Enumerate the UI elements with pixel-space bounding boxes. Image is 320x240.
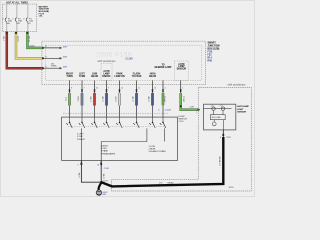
svg-text:8: 8 — [71, 88, 72, 90]
svg-text:57 BK: 57 BK — [79, 172, 81, 178]
label light switch — [179, 116, 188, 123]
label battery junction box — [39, 5, 50, 17]
svg-text:LIGHT: LIGHT — [237, 109, 244, 111]
switch contact blades — [66, 122, 165, 128]
svg-text:10: 10 — [154, 88, 156, 90]
svg-text:3 WH: 3 WH — [78, 96, 80, 101]
wire yellow from fuse F2 — [16, 32, 43, 59]
svg-text:BK/RD: BK/RD — [168, 182, 175, 184]
svg-text:BOX (SJB): BOX (SJB) — [208, 49, 220, 51]
node splice sensor wire — [180, 105, 182, 107]
svg-text:4WT: 4WT — [63, 46, 68, 48]
svg-text:11: 11 — [138, 88, 140, 90]
sensor internal bus — [204, 108, 232, 110]
svg-text:5: 5 — [78, 165, 79, 167]
svg-text:2 RD: 2 RD — [4, 36, 6, 41]
svg-text:with autolamps: with autolamps — [228, 82, 247, 86]
svg-text:1: 1 — [182, 88, 183, 90]
svg-text:196 LG: 196 LG — [184, 95, 186, 102]
wire ground mid — [100, 160, 102, 182]
svg-text:13 YE: 13 YE — [18, 35, 20, 41]
label autolamp light sensor — [237, 105, 249, 113]
wire park lamp (grey) — [119, 80, 121, 117]
svg-text:DEMAND LAMP: DEMAND LAMP — [155, 66, 172, 69]
node yellow pin — [42, 57, 44, 59]
switch position text A — [77, 134, 86, 141]
wire low beam (red) — [94, 80, 96, 117]
svg-text:SENSOR: SENSOR — [237, 112, 246, 114]
svg-text:C1089: C1089 — [125, 57, 133, 60]
svg-text:SUN LOAD: SUN LOAD — [212, 116, 222, 119]
svg-text:3 FLASH TO PASS: 3 FLASH TO PASS — [149, 150, 167, 153]
svg-text:15 GN: 15 GN — [29, 36, 31, 43]
internal wire to bottom pins — [81, 128, 164, 160]
svg-text:R14: R14 — [208, 57, 213, 60]
node yellow pin tick — [15, 32, 17, 34]
svg-text:57 BK: 57 BK — [104, 173, 106, 179]
wire high beam (navy) — [152, 80, 154, 117]
svg-text:14C: 14C — [27, 23, 31, 25]
svg-text:BEAM: BEAM — [149, 75, 156, 78]
light switch box — [62, 117, 178, 160]
fuse F3 wire — [27, 4, 29, 32]
svg-text:10 DB: 10 DB — [149, 96, 151, 102]
svg-text:15: 15 — [97, 165, 99, 167]
autolamp light sensor box — [204, 104, 236, 130]
pin numbers SJB bottom — [71, 88, 183, 90]
switch bottom pin 15 + C248 — [100, 160, 102, 166]
svg-text:14: 14 — [121, 88, 123, 90]
wire ground left — [81, 160, 101, 182]
pin label RIGHT TURN — [66, 63, 187, 78]
wire flash to pass (navy) — [136, 80, 138, 117]
svg-text:7: 7 — [84, 88, 85, 90]
svg-text:1: 1 — [196, 112, 197, 114]
svg-text:3 RIGHT: 3 RIGHT — [77, 139, 86, 141]
svg-text:TO PASS: TO PASS — [132, 75, 142, 78]
svg-text:TURN: TURN — [66, 76, 73, 78]
wire demand lamp (green) — [162, 80, 164, 117]
battery junction box (dashed) — [2, 4, 36, 32]
with autolamps dashed box (right) — [112, 88, 252, 192]
arrow ref 4WT yellow — [60, 57, 63, 60]
wire yellow feed inside SJB — [43, 57, 60, 59]
svg-text:7 PARK: 7 PARK — [101, 150, 109, 153]
fuse F2 — [15, 18, 17, 22]
switch bottom pin 5 — [80, 160, 82, 166]
fuse F1 wire — [6, 4, 8, 32]
switch contact dots — [69, 122, 164, 124]
connector C2048 dashed line — [63, 112, 168, 114]
svg-text:12 DB: 12 DB — [133, 96, 135, 102]
ground G302 — [96, 190, 101, 195]
switch position text B — [101, 144, 116, 155]
smart junction box inner (dashed) — [45, 45, 201, 80]
svg-text:5 AUTO: 5 AUTO — [101, 144, 109, 147]
wire labels between SJB and switch — [66, 95, 186, 102]
smart junction box outer (dashed) — [42, 41, 206, 84]
svg-text:R48: R48 — [208, 60, 213, 63]
svg-text:FCB: FCB — [208, 52, 213, 54]
autolamp sensor sub-box (dashed) — [175, 61, 189, 80]
pin numbers left feeds — [45, 46, 47, 68]
svg-text:14 GY: 14 GY — [116, 96, 118, 102]
node red pin — [42, 67, 44, 69]
svg-text:4WT: 4WT — [63, 67, 68, 69]
switch position text C — [149, 146, 167, 153]
sensor thermistor — [212, 122, 216, 126]
svg-text:6 OFF: 6 OFF — [101, 148, 107, 150]
node green pin — [42, 47, 44, 49]
node red pin tick — [6, 32, 8, 34]
svg-text:1 LEFT: 1 LEFT — [77, 134, 84, 136]
SJB bottom pins — [69, 89, 182, 92]
svg-text:SENSOR: SENSOR — [177, 69, 187, 71]
svg-text:ON/OFF: ON/OFF — [102, 76, 111, 78]
svg-text:1 LOW: 1 LOW — [149, 146, 155, 148]
wire thick ground (sensor) — [101, 137, 223, 186]
wire to autolamp sensor (green) — [180, 80, 182, 93]
svg-text:F32: F32 — [208, 55, 213, 57]
photodiode arrows — [211, 105, 223, 107]
svg-text:TURN: TURN — [79, 76, 86, 78]
svg-text:22: 22 — [96, 88, 98, 90]
arrow into C287 — [198, 108, 201, 110]
svg-text:13 RD: 13 RD — [91, 96, 93, 102]
node green pin tick — [26, 32, 28, 34]
switch linkage dashed — [68, 125, 166, 127]
node ground junction — [100, 181, 102, 183]
fuse F2 wire — [16, 4, 18, 32]
svg-text:SMART: SMART — [208, 42, 217, 45]
fuse F3 — [26, 18, 28, 22]
arrow ref 4WT green — [60, 47, 63, 50]
wire autolamp on/off (navy) — [106, 80, 108, 117]
svg-text:LAMP ON: LAMP ON — [114, 75, 125, 78]
svg-text:197 LG: 197 LG — [165, 95, 167, 102]
svg-text:4WT: 4WT — [63, 57, 68, 59]
wire green feed inside SJB — [43, 47, 60, 49]
wire red feed inside SJB — [43, 67, 60, 69]
wire left turn (white) — [81, 80, 83, 117]
wire stubs into switch — [70, 117, 164, 122]
wire red from fuse F1 — [7, 32, 43, 69]
svg-text:8 HEADLAMPS: 8 HEADLAMPS — [101, 152, 116, 155]
photodiode D2 — [221, 107, 224, 110]
svg-text:2 OFF: 2 OFF — [77, 136, 83, 138]
svg-text:9: 9 — [108, 88, 109, 90]
label smart junction box — [208, 42, 220, 63]
wire right turn (green) — [69, 80, 71, 117]
svg-text:15 DB: 15 DB — [103, 96, 105, 102]
svg-text:C1049: C1049 — [28, 46, 35, 48]
svg-text:2 LG: 2 LG — [66, 96, 68, 101]
svg-text:C2048: C2048 — [165, 110, 172, 112]
sensor output pin 4 C287 — [222, 130, 224, 137]
svg-text:S218: S218 — [229, 187, 235, 189]
svg-text:4: 4 — [165, 88, 166, 90]
autolamp on/off sub-box (dashed) — [101, 64, 112, 81]
svg-text:with autolamps: with autolamps — [98, 59, 117, 63]
sensor module rect — [210, 115, 225, 120]
svg-text:2 HIGH: 2 HIGH — [149, 149, 156, 151]
svg-text:175 BK/RD: 175 BK/RD — [219, 156, 221, 166]
svg-text:BEAM: BEAM — [91, 75, 98, 78]
svg-text:AUTOLAMP: AUTOLAMP — [237, 105, 249, 108]
photodiode D1 — [212, 107, 215, 110]
svg-text:14A: 14A — [39, 15, 43, 18]
svg-text:JUNCTION: JUNCTION — [208, 46, 220, 48]
svg-text:PK/BK: PK/BK — [51, 66, 57, 68]
fuse F1 — [5, 18, 7, 22]
sensor internal wires — [214, 111, 224, 130]
svg-text:C202: C202 — [179, 121, 185, 123]
wire green from fuse F3 — [27, 32, 43, 48]
arrow ref 4WT red — [60, 67, 63, 70]
